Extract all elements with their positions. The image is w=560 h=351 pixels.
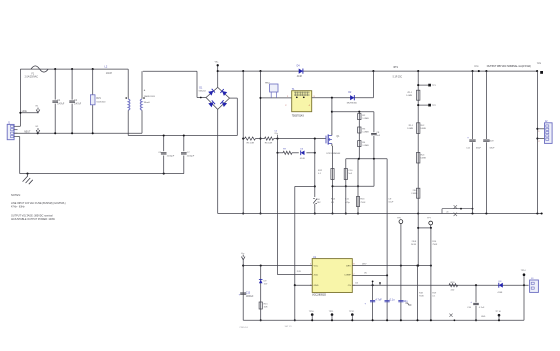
wire: divider bottom row (346, 158, 387, 160)
connector J2 (545, 123, 553, 144)
svg-text:DRV: DRV (362, 264, 367, 266)
Vcc feed (241, 257, 245, 260)
wire: line branch to bridge (143, 70, 197, 72)
svg-text:S14K300: S14K300 (96, 101, 106, 103)
output network R20 D3 (449, 284, 458, 287)
wire: neutral from J1 (14, 132, 142, 134)
TP circles (399, 220, 403, 224)
output caps C12 C13 (472, 71, 474, 139)
capacitor C1 (54, 69, 56, 100)
svg-text:2.0MB: 2.0MB (411, 193, 418, 195)
net arrow E1 on line stub (20, 112, 38, 114)
wire: drain node tap (331, 98, 333, 133)
svg-text:1.0MB: 1.0MB (362, 145, 369, 147)
svg-text:1.0MB: 1.0MB (362, 118, 369, 120)
gate pulldown chain (314, 139, 316, 197)
svg-text:2200pF: 2200pF (167, 156, 175, 158)
svg-text:TP10: TP10 (309, 311, 315, 313)
svg-text:SHT 1/1: SHT 1/1 (285, 326, 292, 328)
svg-text:10R: 10R (264, 307, 268, 309)
zener D9 + R15 (260, 266, 262, 321)
svg-text:COMP: COMP (344, 275, 351, 277)
wire: source sense (331, 145, 334, 147)
wire: gate net to IC (295, 185, 315, 187)
svg-text:GND: GND (481, 316, 486, 318)
wire: earth rail (20, 173, 184, 175)
MOSFET Q1 (315, 138, 326, 140)
node: line junction dots (54, 68, 56, 70)
svg-text:750K: 750K (419, 295, 424, 297)
wire: comp row right (352, 274, 387, 276)
capacitor C6 (Y-cap) (163, 136, 165, 152)
svg-text:470p: 470p (345, 202, 351, 204)
wire: left vertical from J1 to top (19, 69, 21, 126)
svg-text:750K: 750K (360, 202, 366, 204)
wire: bottom gnd rail (243, 319, 524, 321)
common-mode choke L2 left winding (127, 69, 129, 99)
svg-text:18V: 18V (317, 202, 321, 204)
wire: DC- rail (218, 213, 543, 215)
thermistor RT2 bypass (270, 84, 278, 92)
svg-text:C13: C13 (246, 293, 251, 295)
connector J3 (530, 280, 539, 292)
svg-text:VD: VD (364, 273, 367, 275)
wire: gnd pin3 (295, 284, 312, 286)
svg-text:68uF: 68uF (476, 148, 482, 150)
svg-text:TP14: TP14 (521, 270, 527, 272)
svg-text:4148: 4148 (497, 292, 503, 294)
svg-text:750370143: 750370143 (292, 115, 305, 118)
svg-text:4148: 4148 (297, 76, 303, 78)
divider chain down right (R8 R9 R10) (417, 71, 419, 266)
TP14 (523, 275, 525, 286)
filter C/R near source (345, 186, 347, 213)
svg-text:24.9K: 24.9K (411, 244, 417, 246)
svg-text:0.47uF: 0.47uF (74, 103, 82, 105)
wire: bridge bottom to DC- rail (217, 109, 219, 213)
varistor RV1 (92, 69, 94, 95)
svg-text:R6 10R: R6 10R (265, 142, 273, 144)
svg-text:GBU4J: GBU4J (199, 90, 206, 92)
startup resistor line A (242, 71, 244, 213)
wire: transformer to boost diode (312, 97, 374, 99)
ground earth symbol (27, 174, 29, 177)
test point TP5 on bus (540, 71, 543, 74)
gate resistors R5 R6 (243, 138, 244, 140)
startup resistor line B (260, 71, 262, 213)
wire: cs row (333, 185, 375, 187)
svg-text:ZCD: ZCD (297, 271, 302, 273)
svg-text:2.0MB: 2.0MB (407, 128, 414, 130)
svg-text:ZCD: ZCD (314, 275, 319, 277)
svg-text:1.0MB: 1.0MB (362, 132, 369, 134)
TP gnd row (311, 313, 314, 316)
svg-text:750R: 750R (432, 244, 437, 246)
stub C9a (277, 135, 279, 139)
svg-text:YAWD2020: YAWD2020 (144, 95, 156, 98)
wire: neutral rail to bridge (128, 135, 237, 137)
svg-text:2.0MB: 2.0MB (420, 128, 427, 130)
svg-text:STF13NM50N: STF13NM50N (326, 153, 340, 155)
svg-text:NOTES:: NOTES: (11, 193, 21, 197)
svg-text:TP 16: TP 16 (495, 311, 501, 313)
svg-text:98mH: 98mH (144, 102, 150, 104)
svg-text:RV1: RV1 (96, 98, 101, 100)
svg-text:450V: 450V (489, 140, 494, 142)
capacitor C13 (240, 292, 246, 294)
svg-text:68uF: 68uF (490, 148, 496, 150)
lower RC verticals (372, 285, 374, 320)
svg-text:NEUT: NEUT (24, 132, 31, 134)
svg-text:0.1u: 0.1u (390, 298, 395, 301)
wire: zcd vert (277, 153, 279, 275)
net arrow E2 on neutral (36, 130, 40, 133)
svg-text:GND: GND (314, 285, 319, 287)
wire: diode cathode up to bus (372, 71, 374, 98)
svg-text:VCC: VCC (314, 266, 319, 268)
svg-text:10mH: 10mH (106, 73, 112, 75)
wire: J1 earth pin down (18, 136, 20, 138)
wire: to J2 (536, 71, 538, 213)
capacitor C8 on divider (373, 112, 375, 133)
svg-text:PWR-054: PWR-054 (240, 327, 248, 329)
capacitor C7 (Y-cap) (183, 136, 185, 152)
diode D4 on DC+ bus (299, 68, 303, 73)
svg-text:4.7uF: 4.7uF (479, 307, 485, 309)
wire: bridge top to DC+ bus (217, 65, 219, 87)
svg-text:TP12: TP12 (349, 311, 355, 313)
svg-text:DRV: DRV (346, 266, 351, 268)
svg-text:2200pF: 2200pF (187, 156, 195, 158)
divider resistor chain R2 R3 R4 (358, 112, 360, 159)
wire: DC+ to transformer (261, 97, 292, 99)
svg-text:2.0A/250VAC: 2.0A/250VAC (25, 75, 39, 78)
svg-text:LINE INPUT 115 VAC FUSE (BUSSM: LINE INPUT 115 VAC FUSE (BUSSM) (GOVPWL) (11, 202, 66, 205)
svg-text:47Hz - 63Hz: 47Hz - 63Hz (11, 205, 25, 208)
svg-text:2.0MB: 2.0MB (420, 158, 427, 160)
svg-text:4148: 4148 (300, 158, 306, 160)
fuse F1 (31, 66, 48, 72)
wire: AC line top loop (20, 68, 128, 70)
wire: drv row right (352, 265, 431, 267)
svg-text:CS: CS (348, 285, 352, 287)
bridge rectifier D1 (206, 87, 218, 97)
transformer T1 (292, 91, 312, 112)
svg-text:R5 10R: R5 10R (247, 142, 255, 144)
capacitor C16 (475, 285, 477, 302)
svg-text:0.47uF: 0.47uF (57, 103, 65, 105)
svg-text:5.1R 25C: 5.1R 25C (393, 77, 403, 79)
svg-text:LINE: LINE (22, 111, 28, 113)
svg-text:UCC28051D: UCC28051D (312, 294, 326, 297)
jumper ties (441, 209, 443, 214)
svg-text:ADJUSTABLE OUTPUT POWER: 100W: ADJUSTABLE OUTPUT POWER: 100W (11, 218, 55, 221)
wire: bridge AC corner (236, 98, 238, 135)
svg-text:15V: 15V (264, 283, 268, 285)
diode D2 boost (350, 95, 354, 100)
svg-text:OUTPUT 385 VDC NOMINAL 4-A(2: OUTPUT 385 VDC NOMINAL 4-A(2.5 MA) (487, 65, 531, 68)
wire: cs row right long (352, 284, 528, 286)
IC U1 PFC controller (312, 259, 352, 293)
svg-text:RT1: RT1 (394, 67, 399, 69)
wire: right drop to bottom rail (523, 285, 525, 320)
capacitor C2 (71, 69, 73, 100)
wire: DC+ bus (218, 70, 538, 72)
common-mode choke L2 right winding (141, 71, 143, 99)
svg-text:1.0MB: 1.0MB (406, 95, 413, 97)
svg-text:4.7uF: 4.7uF (375, 298, 382, 301)
svg-text:10uF: 10uF (388, 202, 394, 204)
gate turn-off path R7 D6 (277, 139, 279, 153)
svg-text:1000uF: 1000uF (246, 296, 254, 298)
svg-text:MURS360: MURS360 (347, 103, 358, 105)
connector J1 (7, 124, 14, 139)
TP16 (498, 314, 501, 317)
